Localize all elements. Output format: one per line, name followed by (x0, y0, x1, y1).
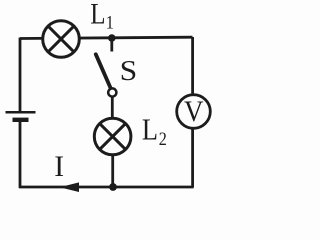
svg-text:2: 2 (159, 128, 167, 150)
lamp L2 (94, 118, 131, 155)
svg-text:L: L (90, 0, 105, 30)
svg-text:I: I (54, 151, 64, 183)
voltmeter V (177, 95, 211, 129)
wire lamp L2 to bottom (111, 152, 114, 187)
svg-text:1: 1 (106, 11, 114, 33)
label L1 (90, 0, 114, 33)
node junction top (108, 34, 116, 42)
node junction bottom (109, 183, 117, 191)
switch S blade (96, 54, 111, 87)
wire left lower (19, 121, 22, 188)
battery (6, 112, 36, 120)
switch S pivot circle (108, 88, 116, 96)
label L2 (142, 112, 167, 149)
lamp L1 (43, 21, 80, 58)
wire switch to lamp L2 (111, 97, 114, 121)
svg-text:L: L (142, 112, 158, 146)
wire right (191, 37, 194, 188)
svg-text:V: V (184, 96, 204, 129)
wire bottom (19, 186, 194, 189)
wire top (20, 37, 193, 38)
current arrow (60, 182, 80, 192)
svg-text:S: S (120, 56, 138, 87)
wire left upper (19, 38, 22, 112)
wire switch stub (110, 38, 113, 52)
